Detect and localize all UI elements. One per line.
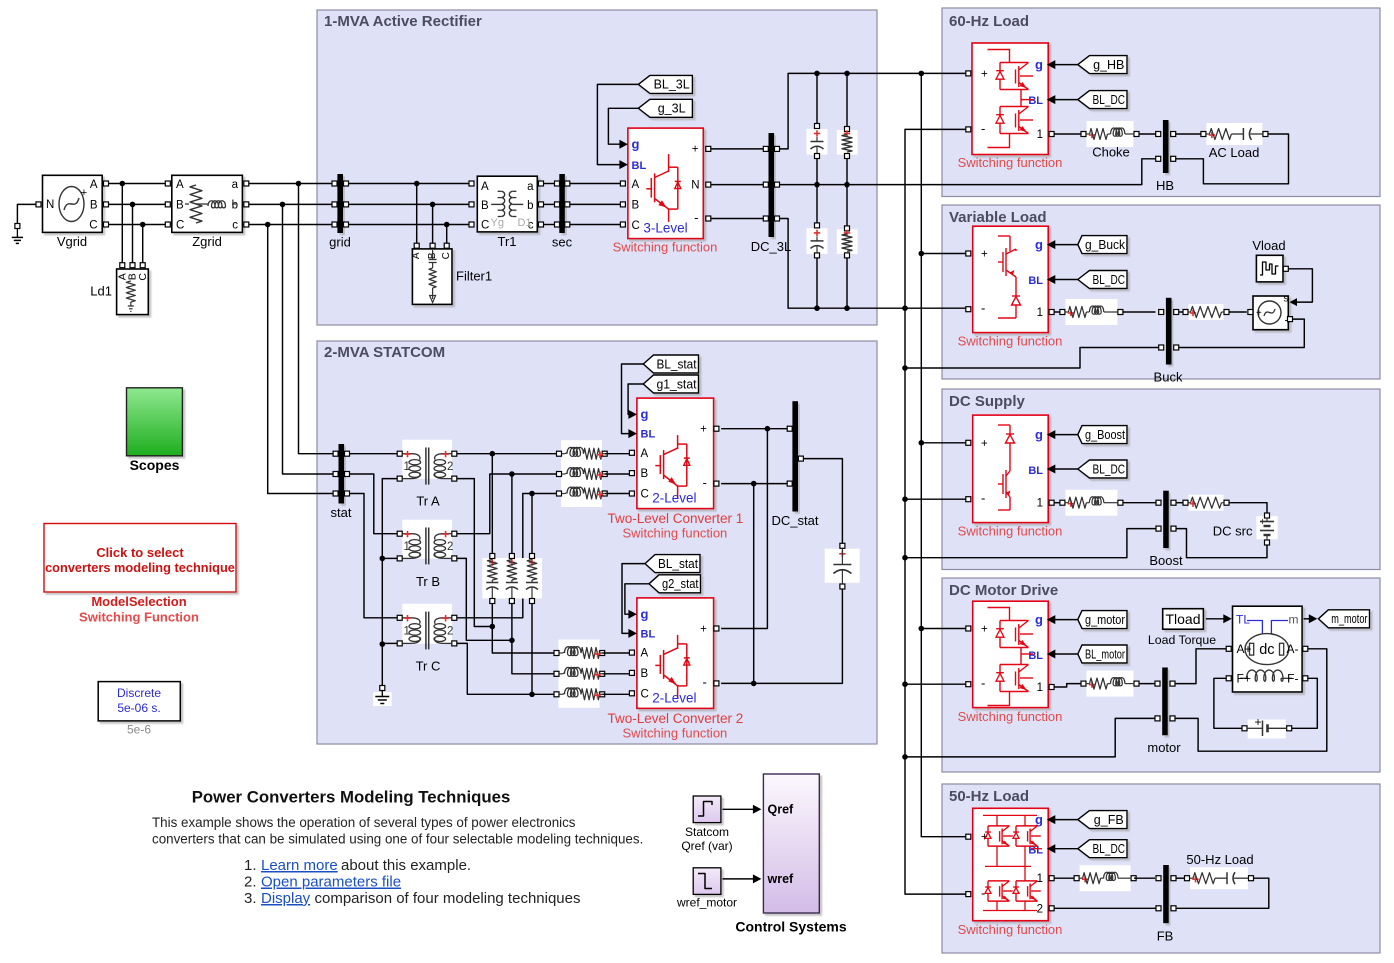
junction DC- rail / DC Motor bottom return [902,754,908,760]
subsystem area: 50-Hz Load [942,784,1380,953]
svg-text:BL_motor: BL_motor [1085,647,1125,661]
svg-text:Statcom: Statcom [685,825,729,839]
svg-text:Qref (var): Qref (var) [681,839,732,853]
wire DC+ distribution rail [921,73,966,836]
wire cap1 column upper [816,73,818,123]
svg-text:TL: TL [1236,613,1250,627]
svg-text:dc: dc [1259,642,1274,658]
svg-text:2.: 2. [244,874,257,891]
svg-text:Ld1: Ld1 [90,284,112,299]
svg-text:m: m [1289,613,1299,627]
capacitor C1 (upper DC link) [807,129,828,155]
junction phase A to Ld1 [120,181,126,187]
junction Tr A secondary bottom node [490,624,496,630]
svg-text:C: C [89,220,97,232]
bus HB [1163,120,1169,173]
subsystem area: 2-MVA STATCOM [317,341,877,744]
subsystem area: DC Motor Drive [942,578,1380,772]
wire wref_motor to Control Systems [723,878,754,880]
port + [714,426,719,431]
wire BL_DC to port [1055,468,1078,470]
port - (buck) [966,307,971,312]
svg-text:50-Hz Load: 50-Hz Load [949,788,1029,805]
svg-text:comparison of four modeling te: comparison of four modeling techniques [315,890,581,907]
port N of 3-Level [706,182,711,187]
port - [714,481,719,486]
wire g_motor to port [1055,619,1078,621]
svg-text:converters that can be simulat: converters that can be simulated using o… [152,832,643,847]
3-Level IGBT icon [668,154,670,172]
wire Vload to source s [1288,269,1312,302]
svg-text:Vload: Vload [1252,238,1285,253]
port C of 3-Level [620,222,625,227]
svg-text:Switching function: Switching function [623,526,728,541]
wire BL_stat to converter1 BL [622,364,644,434]
snubber RC branch phase C [522,558,542,599]
svg-text:Power Converters Modeling Tech: Power Converters Modeling Techniques [192,788,511,807]
junction res2 / DC- rail [844,305,850,311]
arrowhead Qref [753,805,762,814]
wire Choke to HB bus [1139,133,1156,135]
wire Statcom Qref to Control Systems [723,808,754,810]
svg-text:HB: HB [1156,178,1174,193]
svg-text:g: g [641,407,649,422]
svg-text:g: g [1035,237,1043,252]
svg-text:about this example.: about this example. [341,857,471,874]
svg-text:g: g [1035,427,1043,442]
arrowhead into port [1047,650,1056,659]
polarity mark + winding 1 of Tr A [404,453,410,455]
junction DC+ rail top [919,71,925,77]
converter block Two-Level Converter 1 (2-Level) [637,398,714,509]
port + (60Hz) [966,71,971,76]
junction converter2 - node [751,681,757,687]
svg-text:2-Level: 2-Level [652,690,696,705]
svg-text:+: + [700,623,707,635]
port - (FB) [966,892,971,897]
wire g_HB to port [1055,64,1078,66]
wire phase c Tr1 to sec bus [544,224,557,226]
svg-text:+: + [81,187,87,199]
wire Tr B secondary bottom feed [457,558,512,640]
svg-text:Variable Load: Variable Load [949,209,1047,226]
polarity mark + winding 2 of Tr A [442,453,448,455]
signal source Vload [1256,255,1283,282]
converter block Switching function (60-Hz Load half-bridge) [972,43,1048,155]
series RL (50Hz filter) [1080,865,1131,891]
junction DC- rail / DC Supply - [902,496,908,502]
wire Filter1 drop B [432,204,434,243]
DC machine rotor wiring (blue) [1247,621,1262,634]
wire transformer neutral bus [382,479,397,686]
svg-text:1-MVA Active Rectifier: 1-MVA Active Rectifier [324,13,482,30]
junction Tr C neutral [380,641,386,647]
svg-text:N: N [691,180,699,192]
junction Filter1 phase C [444,222,450,228]
svg-text:A: A [176,179,184,191]
svg-text:+: + [981,624,988,636]
svg-text:5e-6: 5e-6 [127,723,151,737]
port B [629,471,634,476]
source block wref_motor [693,868,721,895]
wire Buck bus to load resistor [1179,311,1183,313]
from tag BL_DC [1078,840,1127,858]
port C [629,691,634,696]
field winding icon [1240,677,1247,679]
transformer Tr C [402,604,452,644]
svg-text:c: c [232,220,238,232]
polarity mark + winding 1 of Tr B [404,533,410,535]
svg-text:A+: A+ [1237,642,1252,656]
svg-text:A: A [90,179,98,191]
wire RL to motor bus [1139,683,1156,685]
resistor (variable load) [1189,304,1224,320]
svg-text:N: N [46,199,54,211]
junction phase c to STATCOM feed [265,222,271,228]
junction DC- rail / bottom rail [902,305,908,311]
wire BL_motor to port [1055,653,1078,655]
wire Tr C secondary bottom feed [457,643,554,694]
svg-text:g: g [641,607,649,622]
wire RL to Boost bus [1123,502,1156,504]
port B [629,670,634,675]
svg-text:motor: motor [1147,740,1181,755]
wire res1 to N rail [846,159,848,185]
wire DC_stat to capacitor top [803,459,842,544]
svg-text:F-: F- [1287,671,1298,685]
resistor R1 (upper DC link) [837,130,858,155]
svg-text:BL_stat: BL_stat [658,557,698,571]
svg-text:Filter1: Filter1 [456,269,492,284]
svg-text:BL: BL [1028,275,1043,287]
arrowhead into port [1047,95,1056,104]
wire boost 1-port to RL [1054,502,1060,504]
wire FB bus to RC load [1176,877,1185,879]
voltage source Vgrid [43,175,103,232]
Tr1 winding 1 icon [491,203,502,205]
series RL branch converter1 phase A [561,440,602,467]
resistor R2 (lower DC link) [837,229,858,254]
wire DC- distribution rail [905,129,968,894]
constant block Tload [1163,609,1204,630]
junction DC- rail / Variable Load bottom return [902,365,908,371]
wire Tr C neutral link [383,642,397,644]
wire RC return loop [1176,878,1269,908]
junction Filter1 phase A [414,181,420,187]
wire DC Motor + feed [921,628,966,630]
svg-text:Switching function: Switching function [958,155,1063,170]
wire AC Load return loop [1176,134,1289,184]
goto tag m_motor [1318,610,1369,628]
svg-text:DC Supply: DC Supply [949,393,1025,410]
ground symbol (grid neutral) [17,204,38,223]
junction converter2 + tap [765,426,771,432]
junction DC+ rail / DC Supply + [919,440,925,446]
svg-text:BL: BL [1028,650,1043,662]
wire 3-Level N to DC_3L bus [711,184,766,186]
bus sec [559,174,565,233]
port 1 (motor) [1049,685,1054,690]
motor IGBT cell bottom [1000,664,1029,666]
battery (field supply) [1248,720,1286,739]
svg-text:+: + [981,69,988,81]
svg-text:Switching function: Switching function [958,524,1063,539]
port BL [628,629,637,638]
svg-text:Tr1: Tr1 [497,234,516,249]
svg-text:converters modeling technique: converters modeling technique [45,560,235,575]
wire Tr C secondary top to RL1-C row [457,494,557,618]
wire DC+ rail top (DC_3L to 60-Hz Load +) [780,73,966,148]
wire phase b Zgrid to grid bus [249,203,333,205]
svg-text:C: C [176,220,184,232]
series RL (boost filter) [1065,490,1117,516]
wire 3-Level + to DC_3L bus [711,148,766,150]
wire FB 1-port to RL [1054,877,1074,879]
svg-text:C: C [641,489,649,501]
junction cap2 / DC- rail [814,305,820,311]
svg-text:Discrete: Discrete [117,686,161,700]
svg-text:B: B [176,200,184,212]
capacitor C2 (lower DC link) [807,228,828,254]
svg-text:AC Load: AC Load [1209,145,1260,160]
svg-text:Switching function: Switching function [623,725,728,740]
wire resistor to source + [1229,311,1247,313]
svg-text:+: + [1255,715,1262,729]
svg-text:C: C [137,273,149,281]
junction DC- rail / DC Motor - [902,681,908,687]
svg-text:g: g [632,137,640,152]
svg-text:Choke: Choke [1092,145,1130,160]
port A of 3-Level [620,181,625,186]
svg-text:BL_DC: BL_DC [1093,842,1126,856]
svg-text:Tload: Tload [1165,611,1200,627]
svg-text:Tr A: Tr A [416,494,440,509]
junction DC- rail / DC Supply bottom return [902,555,908,561]
DC machine block [1233,606,1303,692]
wire A- loop to motor bus [1175,649,1327,751]
wire phase A Vgrid to Zgrid [109,183,168,185]
port 1 (60Hz) [1049,132,1054,137]
svg-text:3.: 3. [244,890,257,907]
wire Tr A secondary top to RL1-A [457,453,557,455]
from tag g_HB [1078,56,1127,74]
svg-text:BL_DC: BL_DC [1093,93,1126,107]
Tr1 winding 2 icon [512,203,523,205]
wire phase C Vgrid to Zgrid [109,224,168,226]
svg-text:Tr B: Tr B [416,574,440,589]
wire RL to Buck bus [1123,311,1156,313]
arrowhead into port [1047,60,1056,69]
wire snubber A bottom to RL2-A [492,604,554,654]
converter block 3-Level (Switching function) [628,128,703,239]
buck diode icon [1015,283,1017,296]
arrowhead s input [1290,298,1298,306]
svg-text:Learn more: Learn more [261,857,338,874]
junction phase C to Ld1 [140,222,146,228]
series RL branch converter2 phase C [559,681,600,708]
wire Tr B secondary top to RL1-B row [457,474,557,534]
svg-text:a: a [527,181,534,193]
wire STATCOM feed phase B [283,204,334,474]
series RC AC Load [1206,123,1262,145]
junction DC-link res top / + rail [844,71,850,77]
svg-text:b: b [527,200,533,212]
svg-text:+: + [692,144,699,156]
bus DC_stat [792,401,798,511]
from tag g_Boost [1078,426,1127,444]
60Hz cell wiring [988,50,1010,63]
svg-text:Switching function: Switching function [958,922,1063,937]
ground symbol (STATCOM transformer neutral) [380,686,385,691]
svg-text:2: 2 [447,461,453,473]
wire converter2 - link [721,484,754,684]
brush A+ icon [1250,643,1254,655]
boost diode icon [998,424,1010,426]
svg-text:Tr C: Tr C [416,659,441,674]
wire cap1 to N rail [816,159,818,185]
port g [628,410,637,419]
60Hz IGBT cell top [1000,62,1029,64]
Zgrid resistor icon [185,203,189,205]
svg-text:-: - [694,210,698,225]
wire Filter1 drop C [446,225,448,244]
wire snubber C bottom to RL2-C row [531,604,533,695]
port BL of 3-Level [619,160,628,169]
bus Buck [1166,298,1172,365]
wire phase C sec to 3-Level [570,224,622,226]
load block Ld1 [120,263,125,268]
port - (motor) [966,682,971,687]
wire motor 1-port to RL [1054,684,1081,687]
from tag BL_motor [1078,645,1127,663]
bus DC_3L [769,133,775,237]
boost IGBT icon [1015,462,1017,466]
wire Tload to TL port [1206,618,1224,620]
svg-text:Scopes: Scopes [130,457,180,473]
wire FB 2-port to bus [1054,907,1156,909]
wire DC Supply bottom return [905,529,1156,558]
svg-text:50-Hz Load: 50-Hz Load [1186,852,1253,867]
wire resistor to DC src + [1229,503,1267,513]
wire g1_stat to converter1 g [628,384,643,414]
wire Ld1 phase B drop [132,204,134,262]
svg-text:A: A [641,448,649,460]
svg-text:BL_stat: BL_stat [657,357,697,371]
svg-text:-: - [981,301,985,316]
svg-text:A: A [641,648,649,660]
svg-text:g_motor: g_motor [1085,613,1125,627]
port g [628,610,637,619]
motor IGBT cell top [1000,620,1029,622]
series RL Choke [1087,121,1134,147]
wire cap2 to DC- rail [816,258,818,308]
arrowhead into port [1047,430,1056,439]
svg-text:Two-Level Converter 1: Two-Level Converter 1 [607,511,743,526]
goto tag g2_stat [649,575,701,593]
arrowhead into port [1047,615,1056,624]
subsystem area: 60-Hz Load [942,8,1380,197]
goto tag BL_stat (converter1) [643,355,698,373]
goto tag g1_stat [643,375,698,393]
wire capacitor bottom to converter2 - [754,589,843,683]
svg-text:1.: 1. [244,857,257,874]
subsystem area: 1-MVA Active Rectifier [317,10,877,325]
svg-text:1: 1 [1037,307,1043,319]
bus FB [1163,865,1169,923]
svg-text:A: A [632,179,640,191]
polarity mark + winding 1 of Tr C [404,617,410,619]
svg-text:A-: A- [1287,642,1299,656]
svg-text:b: b [232,200,238,212]
svg-text:+: + [700,424,707,436]
wire Boost bus to DC src - [1176,529,1267,558]
svg-text:-: - [703,675,707,690]
svg-text:Qref: Qref [768,803,795,817]
wire g_Buck to port [1055,244,1078,246]
svg-text:wref: wref [767,872,795,886]
svg-text:BL_DC: BL_DC [1093,462,1126,476]
wire Tr A secondary bottom feed [457,479,493,627]
svg-text:+: + [981,249,988,261]
svg-text:sec: sec [552,235,573,250]
from tag g_motor [1078,611,1127,629]
svg-text:Display: Display [261,890,311,907]
svg-text:g: g [1035,57,1043,72]
wire BL_DC to port [1055,848,1078,850]
wire BL_DC to port [1055,99,1078,101]
junction phase a to STATCOM feed [296,181,302,187]
series RL branch converter1 phase C [561,480,602,507]
capacitor C_stat (DC link) [825,549,860,583]
impedance block Zgrid [172,175,243,232]
wire m to m_motor [1304,618,1310,620]
junction phase b to STATCOM feed [280,202,286,208]
wire snubber A column [491,454,493,554]
arrowhead into port [1047,240,1056,249]
wire stat phase B to Tr B [350,474,398,534]
svg-text:BL: BL [641,628,656,640]
wire phase a Zgrid to grid bus [249,183,333,185]
converter block Switching function (buck chopper) [973,226,1048,332]
wire g_Boost to port [1055,434,1078,436]
from tag g_Buck [1078,236,1127,254]
svg-text:F+: F+ [1237,671,1251,685]
svg-text:Switching function: Switching function [958,334,1063,349]
brush A- icon [1280,643,1284,655]
wire g_FB to port [1055,819,1078,821]
svg-text:1: 1 [1037,873,1043,885]
subsystem area: DC Supply [942,389,1380,570]
svg-text:-: - [703,475,707,490]
motor cell wiring [988,608,1010,621]
wire 60Hz 1-port to Choke [1054,133,1081,135]
wire BL_3L tag to BL port [597,84,638,164]
svg-text:g_FB: g_FB [1094,813,1124,827]
port 1 (boost) [1049,500,1054,505]
junction phase B to Ld1 [130,202,136,208]
svg-text:Vgrid: Vgrid [57,234,87,249]
svg-text:2-Level: 2-Level [652,491,696,506]
subsystem area: Variable Load [942,205,1380,379]
transformer Tr B [402,520,452,559]
svg-text:DC_stat: DC_stat [772,513,819,528]
svg-text:+: + [1256,308,1262,319]
converter block Two-Level Converter 2 (2-Level) [637,598,714,709]
junction cap column / N rail [814,182,820,188]
filter block Filter1 [414,243,419,248]
svg-text:Switching function: Switching function [958,709,1063,724]
wire g2_stat to converter2 g [625,584,649,614]
